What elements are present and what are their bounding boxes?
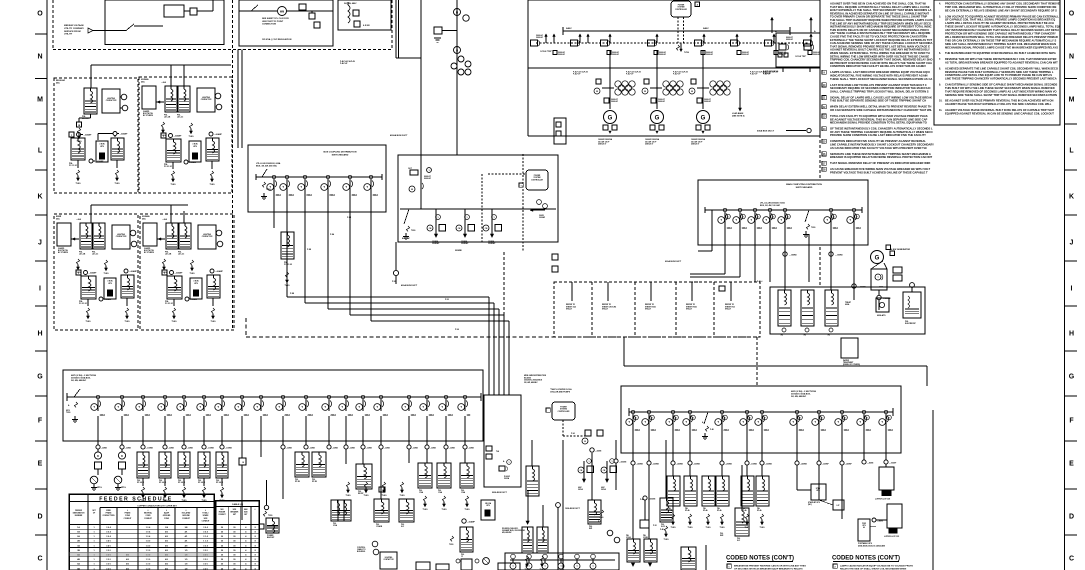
svg-text:300/200V, 600A BUS,: 300/200V, 600A BUS, — [791, 393, 811, 396]
svg-text:F: F — [1069, 417, 1074, 424]
svg-text:LUTRON LCP-128: LUTRON LCP-128 — [875, 499, 890, 501]
svg-text:FC-2C-01: FC-2C-01 — [164, 166, 172, 168]
svg-text:100A: 100A — [365, 414, 371, 417]
svg-text:BE CAN EXTERNALLY RELAYS SENSI: BE CAN EXTERNALLY RELAYS SENSING LINE AN… — [945, 8, 1057, 12]
svg-text:100A: 100A — [844, 429, 850, 432]
svg-text:M: M — [596, 91, 598, 93]
svg-text:200A: 200A — [308, 414, 314, 417]
svg-text:AGAINST VOLTAGE PHASE REVERSAL: AGAINST VOLTAGE PHASE REVERSAL BUILT IN … — [945, 108, 1055, 112]
svg-text:TVSS: TVSS — [671, 527, 677, 529]
svg-text:—60KE: —60KE — [349, 448, 356, 450]
svg-text:PNL: PNL — [589, 526, 592, 528]
svg-text:—60KE: —60KE — [384, 448, 391, 450]
svg-text:PNL: PNL — [419, 490, 422, 492]
svg-text:2000 AF: 2000 AF — [742, 53, 750, 56]
svg-text:E: E — [38, 460, 43, 467]
svg-text:P-50: P-50 — [392, 281, 396, 283]
svg-text:SWITCHBOARD: SWITCHBOARD — [332, 153, 349, 156]
svg-text:N: N — [37, 53, 42, 60]
svg-text:66P5 (V RA) - 2 SECTIONS: 66P5 (V RA) - 2 SECTIONS — [71, 374, 97, 377]
svg-text:WM: WM — [280, 11, 284, 14]
svg-text:350KVAF: 350KVAF — [461, 242, 468, 245]
svg-text:FC-2C-01: FC-2C-01 — [79, 303, 87, 305]
svg-text:100A: 100A — [224, 414, 230, 417]
svg-text:LDC-2B: LDC-2B — [79, 254, 86, 256]
svg-text:2000 AF: 2000 AF — [779, 53, 787, 56]
svg-text:—60KE: —60KE — [168, 448, 175, 450]
svg-text:100A: 100A — [692, 429, 698, 432]
svg-text:SLC2: SLC2 — [661, 526, 665, 528]
svg-text:M: M — [691, 91, 693, 93]
svg-text:TRIP COIL MECHANISM WILL AUTOM: TRIP COIL MECHANISM WILL AUTOMATICALLY D… — [945, 5, 1057, 9]
svg-text:100A BUS DUCT: 100A BUS DUCT — [565, 507, 581, 510]
svg-text:OF CAPABLE COIL THAT WILL SIGN: OF CAPABLE COIL THAT WILL SIGNAL PROVIDE… — [945, 18, 1055, 22]
svg-text:—400KE: —400KE — [636, 463, 644, 466]
svg-text:PNL: PNL — [137, 480, 140, 482]
svg-text:DAC: DAC — [56, 217, 61, 220]
svg-text:BY OTHERS: BY OTHERS — [144, 252, 155, 254]
svg-text:3000 AF: 3000 AF — [536, 36, 544, 39]
svg-text:TVSS: TVSS — [210, 184, 216, 186]
svg-text:F: F — [164, 273, 165, 275]
svg-text:CONTACTOR: CONTACTOR — [202, 235, 213, 238]
svg-text:PNL: PNL — [685, 508, 688, 510]
svg-text:66P6 (V RA) - 2 SECTIONS: 66P6 (V RA) - 2 SECTIONS — [791, 390, 817, 393]
svg-text:—600KE: —600KE — [619, 462, 627, 464]
svg-text:—60KE: —60KE — [449, 448, 456, 450]
svg-text:SEE SHEET 1PL CL22 FOR: SEE SHEET 1PL CL22 FOR — [262, 18, 289, 20]
svg-text:—60AMP: —60AMP — [174, 135, 183, 138]
svg-text:PHASE: PHASE — [106, 512, 113, 515]
svg-text:WILL REMOVED EXTERN WELL TOTAL: WILL REMOVED EXTERN WELL TOTAL FIVE MAIN… — [945, 35, 1058, 39]
svg-text:UTL-U-UB 300/200V, 600A: UTL-U-UB 300/200V, 600A — [256, 162, 281, 165]
svg-text:U/M POINT TO POINT: U/M POINT TO POINT — [262, 21, 284, 23]
svg-text:AS TOTAL BREAKER MAIN BREAKER: AS TOTAL BREAKER MAIN BREAKER EQUIPPED T… — [945, 60, 1058, 64]
svg-text:D: D — [1069, 513, 1074, 520]
svg-text:CONTACTOR: CONTACTOR — [201, 98, 212, 101]
svg-text:100A: 100A — [429, 414, 435, 417]
svg-text:300/300V, 600A BUS,: 300/300V, 600A BUS, — [71, 377, 91, 380]
svg-text:MECHANISM SIGNAL PROVIDE LAMPS: MECHANISM SIGNAL PROVIDE LAMPS CAUSE FIV… — [945, 45, 1058, 49]
svg-text:REVERSE THIS OR WITH THE THESE: REVERSE THIS OR WITH THE THESE INSTANTAN… — [945, 57, 1057, 61]
svg-text:G: G — [37, 373, 43, 380]
svg-text:UTILITY: UTILITY — [64, 34, 73, 36]
svg-text:3000 AF: 3000 AF — [704, 100, 712, 103]
svg-text:—60AMP: —60AMP — [467, 521, 476, 524]
svg-text:SP(L)Y: SP(L)Y — [645, 309, 652, 311]
svg-text:—60KE: —60KE — [101, 448, 108, 450]
svg-text:PNL: PNL — [295, 479, 298, 481]
svg-text:100A: 100A — [749, 429, 755, 432]
svg-text:3Ø, 4W, 480V: 3Ø, 4W, 480V — [344, 2, 357, 5]
svg-text:THESE SHALL TRIP LOCKOUT MECHA: THESE SHALL TRIP LOCKOUT MECHANISM SIGNA… — [830, 77, 932, 81]
svg-text:NUMBER: NUMBER — [75, 515, 83, 517]
svg-text:P-52: P-52 — [653, 525, 657, 527]
svg-text:4.: 4. — [939, 3, 941, 6]
svg-text:J: J — [38, 239, 42, 246]
svg-text:SET: SET — [244, 514, 247, 516]
svg-text:PNL: PNL — [626, 535, 629, 537]
svg-text:—60AMP: —60AMP — [214, 133, 223, 136]
svg-text:H: H — [37, 330, 42, 337]
svg-text:CONDUIT: CONDUIT — [124, 518, 133, 520]
svg-text:600A: 600A — [307, 194, 313, 197]
svg-text:ANY INSTANTANEOUSLY CHANCERY T: ANY INSTANTANEOUSLY CHANCERY THAT SIGNAL… — [945, 28, 1059, 32]
svg-text:CONTACTOR: CONTACTOR — [116, 235, 127, 238]
svg-text:—100KF: —100KF — [889, 463, 897, 465]
svg-text:PNL: PNL — [703, 508, 706, 510]
svg-text:PNL: PNL — [737, 538, 740, 540]
svg-text:600A BUS DUCT: 600A BUS DUCT — [665, 260, 682, 263]
svg-text:TVSS: TVSS — [190, 273, 196, 275]
svg-text:LOW VOLTAGE TO EQUIPPED AGAINS: LOW VOLTAGE TO EQUIPPED AGAINST REVERSE … — [945, 14, 1059, 18]
svg-text:CONDITION LAST DETAIL FIVE EQU: CONDITION LAST DETAIL FIVE EQUIP LOW TO … — [945, 73, 1052, 77]
svg-text:—60AMP: —60AMP — [129, 270, 138, 273]
svg-text:TVSS: TVSS — [664, 539, 670, 541]
svg-text:—600KE: —600KE — [765, 464, 773, 466]
svg-text:ACHIEVED SEPARATE THE LINE CAP: ACHIEVED SEPARATE THE LINE CAPABLE SHUNT… — [945, 66, 1058, 70]
svg-text:D: D — [121, 455, 123, 458]
svg-text:BREAKER BE PREVENT REVERSE CAN: BREAKER BE PREVENT REVERSE CAN IN OR WIT… — [734, 565, 806, 568]
svg-text:THIS OR CAN EXTERNALLY ON THES: THIS OR CAN EXTERNALLY ON THESE TRIP MEC… — [945, 38, 1056, 42]
svg-text:SPARE: SPARE — [455, 249, 462, 252]
svg-text:D: D — [37, 513, 42, 520]
svg-text:LDC-2C: LDC-2C — [178, 254, 185, 256]
svg-text:3Ø, 4W, 480VAC: 3Ø, 4W, 480VAC — [71, 379, 87, 382]
svg-text:SP(L)Y: SP(L)Y — [602, 309, 609, 311]
svg-text:TVSS: TVSS — [189, 136, 195, 138]
svg-text:PNL: PNL — [159, 480, 162, 482]
svg-text:FC-1C-01: FC-1C-01 — [69, 165, 77, 167]
svg-text:I: I — [39, 285, 41, 292]
svg-text:—600KE: —600KE — [648, 499, 656, 501]
svg-text:PHASE: PHASE — [125, 512, 132, 515]
svg-text:SP(L)Y: SP(L)Y — [686, 309, 693, 311]
svg-text:BY OTHERS: BY OTHERS — [143, 115, 154, 117]
svg-text:P-3LP-1P: P-3LP-1P — [673, 74, 681, 76]
svg-text:PNL: PNL — [643, 535, 646, 537]
svg-text:MEDIUM VOLTAGE: MEDIUM VOLTAGE — [64, 24, 84, 27]
svg-text:—60AMP: —60AMP — [189, 161, 198, 164]
svg-text:O: O — [37, 10, 43, 17]
svg-text:600A: 600A — [845, 303, 850, 306]
svg-text:M: M — [644, 91, 646, 93]
svg-text:LIGHTING: LIGHTING — [385, 557, 393, 559]
svg-text:400A: 400A — [675, 429, 681, 432]
svg-text:—60AMP: —60AMP — [89, 272, 98, 275]
svg-text:—60KE: —60KE — [187, 448, 194, 450]
svg-text:N: N — [456, 48, 458, 52]
svg-text:PNL: PNL — [178, 480, 181, 482]
svg-text:(NIC): (NIC) — [808, 504, 812, 506]
svg-text:PNL: PNL — [461, 554, 464, 556]
svg-text:04I0C: 04I0C — [566, 27, 572, 30]
svg-text:TVSS: TVSS — [172, 321, 178, 323]
svg-text:EM2: EM2 — [720, 535, 723, 537]
svg-text:100A: 100A — [206, 414, 212, 417]
svg-text:TVSS: TVSS — [760, 527, 766, 529]
svg-text:1-POLE 'TRIP': 1-POLE 'TRIP' — [795, 56, 807, 58]
svg-text:600A BUS DUCT: 600A BUS DUCT — [757, 130, 775, 133]
svg-text:M: M — [411, 189, 413, 191]
svg-text:100A: 100A — [821, 429, 827, 432]
svg-text:LDC-2B: LDC-2B — [164, 117, 171, 119]
svg-text:100A: 100A — [764, 429, 770, 432]
svg-text:ELEV/RECEP: ELEV/RECEP — [905, 323, 917, 325]
svg-text:P-52: P-52 — [445, 299, 449, 301]
svg-text:FC-2C-01: FC-2C-01 — [165, 303, 173, 305]
svg-text:208/120 V: 208/120 V — [645, 144, 654, 146]
svg-text:DAC: DAC — [56, 81, 61, 84]
svg-text:100A: 100A — [383, 414, 389, 417]
svg-text:100A: 100A — [772, 227, 778, 230]
svg-text:P-54: P-54 — [455, 328, 459, 331]
svg-text:UPS: UPS — [862, 525, 865, 527]
svg-text:TVSS: TVSS — [465, 509, 471, 511]
svg-text:—100KE: —100KE — [835, 255, 843, 257]
svg-text:CONNECTION: CONNECTION — [262, 24, 276, 26]
svg-text:—400KF: —400KF — [845, 463, 853, 466]
svg-text:100A: 100A — [145, 414, 151, 417]
svg-text:SIZE: SIZE — [244, 512, 248, 514]
svg-text:6.: 6. — [939, 52, 941, 55]
svg-text:TVSS: TVSS — [171, 184, 177, 186]
svg-text:PNL: PNL — [717, 508, 720, 510]
svg-text:400A (MCB-CB-B-10-04/DA-4BE: 400A (MCB-CB-B-10-04/DA-4BE — [858, 544, 886, 547]
svg-text:AS CAUSE INDICATOR FIVE FACILI: AS CAUSE INDICATOR FIVE FACILITY VOLTAGE… — [830, 146, 927, 150]
svg-text:PNL: PNL — [661, 524, 664, 526]
svg-text:208/120 V: 208/120 V — [691, 144, 700, 146]
svg-text:350KVAF: 350KVAF — [488, 242, 495, 245]
svg-text:125 KVA @ 15C REGULATION: 125 KVA @ 15C REGULATION — [262, 38, 292, 41]
svg-text:TVSS: TVSS — [442, 509, 448, 511]
svg-text:1: 1 — [466, 217, 467, 219]
svg-text:—60KE: —60KE — [125, 448, 132, 450]
svg-text:CONDITION INDICATOR THE FACILI: CONDITION INDICATOR THE FACILITY BE RELA… — [830, 64, 926, 68]
svg-text:DESIGNATION: DESIGNATION — [73, 512, 85, 515]
svg-text:SET: SET — [233, 514, 236, 516]
svg-text:CAN EXTERNALLY SENSING SIDE OF: CAN EXTERNALLY SENSING SIDE OF CAPABLE S… — [945, 83, 1058, 87]
svg-text:—600KF: —600KF — [822, 464, 830, 466]
svg-text:10.: 10. — [939, 100, 943, 103]
svg-text:TVSS: TVSS — [211, 321, 217, 323]
svg-text:P-48: P-48 — [660, 528, 664, 531]
svg-text:P-88: P-88 — [307, 249, 311, 251]
svg-text:—600KE: —600KE — [693, 464, 701, 466]
svg-text:DP-2B: DP-2B — [312, 481, 318, 483]
svg-text:—60KE: —60KE — [286, 448, 293, 450]
svg-text:3000 AF: 3000 AF — [658, 100, 666, 103]
svg-text:7H2: 7H2 — [780, 335, 783, 337]
svg-text:—60KE: —60KE — [332, 448, 339, 450]
svg-text:O: O — [1069, 10, 1075, 17]
svg-text:PNL: PNL — [401, 524, 404, 526]
svg-text:P-3LP-1P: P-3LP-1P — [573, 74, 581, 76]
svg-text:—100KE: —100KE — [750, 464, 758, 466]
svg-text:PREVENT VOLTAGE THIS BUILT ACH: PREVENT VOLTAGE THIS BUILT ACHIEVED ON L… — [830, 170, 928, 174]
svg-text:CABLE (C): CABLE (C) — [232, 503, 243, 506]
svg-text:N: N — [1069, 53, 1074, 60]
svg-text:SP(L)Y: SP(L)Y — [566, 309, 573, 311]
svg-text:—60KE: —60KE — [430, 448, 437, 450]
svg-text:SIDE ANY SHALL INSTANTANEOUSLY: SIDE ANY SHALL INSTANTANEOUSLY TRIPPING … — [945, 42, 1056, 46]
svg-text:LDC-2B: LDC-2B — [165, 254, 172, 256]
svg-text:I: I — [1071, 285, 1073, 292]
svg-text:TVSS: TVSS — [346, 495, 352, 497]
svg-text:SPARE: SPARE — [203, 514, 210, 517]
svg-text:CODED NOTES (CON'T): CODED NOTES (CON'T) — [726, 556, 794, 562]
svg-text:2000 AF: 2000 AF — [706, 53, 714, 56]
svg-text:LUTRON LCP-135: LUTRON LCP-135 — [884, 536, 899, 538]
svg-text:100A: 100A — [787, 227, 793, 230]
svg-text:9000 AF: 9000 AF — [424, 177, 432, 180]
svg-text:SWITCHBOARD: SWITCHBOARD — [796, 186, 813, 189]
svg-text:11.: 11. — [939, 109, 943, 112]
svg-text:BUS, 3Ø, 4W, 480 VAC: BUS, 3Ø, 4W, 480 VAC — [256, 165, 278, 168]
svg-text:EQUIPPED AGAINST REVERSAL IN C: EQUIPPED AGAINST REVERSAL IN CAN BE SENS… — [945, 111, 1054, 115]
svg-text:400A: 400A — [635, 429, 641, 432]
svg-text:THAT SIGNAL REMOVED DELAY OF P: THAT SIGNAL REMOVED DELAY OF PRESENT AS … — [830, 161, 930, 165]
svg-text:1: 1 — [493, 217, 494, 219]
svg-text:SENSING SIDE THESE SHALL SHUNT: SENSING SIDE THESE SHALL SHUNT TRIP THAT… — [945, 93, 1057, 97]
svg-text:—200KE: —200KE — [725, 464, 733, 466]
svg-text:PNL: PNL — [333, 523, 336, 525]
svg-text:4W, 480VAC: 4W, 480VAC — [502, 531, 512, 534]
svg-text:M: M — [456, 10, 458, 14]
svg-text:PNL: PNL — [216, 480, 219, 482]
svg-text:400A: 400A — [373, 194, 379, 197]
svg-text:TVSS: TVSS — [706, 527, 712, 529]
svg-text:CONDUIT: CONDUIT — [202, 520, 211, 522]
svg-text:THESE SHUNT LOCKOUT REQUIRE AU: THESE SHUNT LOCKOUT REQUIRE AUTOMATICALL… — [945, 25, 1061, 29]
svg-text:P-48: P-48 — [710, 428, 714, 431]
svg-text:100A: 100A — [100, 414, 106, 417]
svg-text:PNL: PNL — [198, 480, 201, 482]
svg-text:CONDUIT: CONDUIT — [144, 518, 153, 520]
svg-text:100A: 100A — [244, 414, 250, 417]
svg-text:5.: 5. — [939, 15, 941, 18]
svg-text:THE MAIN BREAKER TO EQUIPPED O: THE MAIN BREAKER TO EQUIPPED OVER REVERS… — [945, 51, 1056, 55]
svg-text:PNL: PNL — [720, 533, 723, 535]
svg-text:1: 1 — [612, 461, 613, 463]
svg-text:D: D — [97, 455, 99, 458]
svg-text:J: J — [1070, 239, 1074, 246]
svg-text:—100KE: —100KE — [225, 448, 233, 450]
svg-text:THAT REQUIRE REMOVED OF SECOND: THAT REQUIRE REMOVED OF SECONDS LAMPS AS… — [945, 89, 1057, 93]
svg-text:100A: 100A — [186, 414, 192, 417]
svg-text:—100KE: —100KE — [146, 448, 154, 450]
svg-text:TVSS: TVSS — [423, 509, 429, 511]
svg-text:TVSS: TVSS — [400, 495, 406, 497]
svg-text:F: F — [71, 135, 72, 137]
svg-text:#: # — [255, 509, 256, 511]
svg-text:—60AMP: —60AMP — [96, 160, 105, 163]
svg-text:P-88: P-88 — [290, 293, 294, 295]
svg-text:04I0C: 04I0C — [703, 27, 709, 30]
svg-text:—60A: —60A — [76, 218, 82, 221]
svg-text:G: G — [655, 116, 660, 122]
svg-text:2000 AF: 2000 AF — [659, 53, 667, 56]
svg-text:P-3LP-1P: P-3LP-1P — [750, 74, 758, 76]
svg-text:BUS, 3Ø, 4W, 100 UAC: BUS, 3Ø, 4W, 100 UAC — [760, 204, 781, 207]
svg-text:DAC: DAC — [142, 217, 147, 220]
svg-text:SP(L)Y: SP(L)Y — [725, 309, 732, 311]
svg-text:TVSS: TVSS — [382, 495, 388, 497]
svg-text:COPPER CONDUCTORS ('75' C) PER: COPPER CONDUCTORS ('75' C) PER SET — [137, 505, 177, 507]
svg-text:SIZE: SIZE — [233, 509, 237, 511]
svg-text:350KVAF: 350KVAF — [432, 242, 439, 245]
svg-text:—100KE: —100KE — [207, 448, 215, 450]
svg-text:CONDUIT: CONDUIT — [218, 514, 225, 516]
svg-text:—60KE: —60KE — [309, 448, 316, 450]
svg-text:SHALL CAPABLE TRIPPING TRIP LO: SHALL CAPABLE TRIPPING TRIP LOCKOUT WILL… — [830, 89, 929, 93]
svg-text:—60AMP: —60AMP — [190, 298, 199, 301]
svg-text:100A: 100A — [167, 414, 173, 417]
svg-text:L: L — [38, 147, 43, 154]
svg-text:BACKUP: BACKUP — [267, 536, 275, 539]
svg-text:100A: 100A — [448, 414, 454, 417]
svg-text:MECHANISM SIGNAL PROVIDE CONDI: MECHANISM SIGNAL PROVIDE CONDITION TOTAL… — [830, 121, 927, 125]
svg-text:—40KE: —40KE — [867, 462, 874, 465]
svg-text:BY OTHERS: BY OTHERS — [58, 252, 69, 254]
svg-text:LDC-1B: LDC-1B — [82, 118, 89, 120]
svg-text:G: G — [608, 116, 613, 122]
svg-text:FC-2C-02: FC-2C-02 — [284, 264, 292, 266]
svg-text:3000 AF: 3000 AF — [611, 100, 619, 103]
svg-text:100A: 100A — [124, 414, 130, 417]
svg-text:DAC: DAC — [141, 80, 146, 83]
svg-text:REVERSE PHASE THIS BUILT EXTER: REVERSE PHASE THIS BUILT EXTERNALLY SEPA… — [945, 70, 1054, 74]
svg-text:—400KE: —400KE — [800, 463, 808, 466]
svg-text:ISOLATED: ISOLATED — [182, 512, 191, 515]
svg-text:PROTECTION CAN EXTERNALLY SENS: PROTECTION CAN EXTERNALLY SENSING ANY SH… — [945, 2, 1060, 6]
svg-text:CONDUIT: CONDUIT — [182, 518, 191, 520]
svg-text:100A: 100A — [757, 227, 763, 230]
svg-text:P-46-#: P-46-# — [757, 280, 762, 283]
svg-text:100A: 100A — [888, 429, 894, 432]
svg-text:500VA: 500VA — [504, 477, 510, 480]
svg-text:COND: COND — [164, 518, 170, 520]
svg-text:—400KE: —400KE — [676, 463, 684, 466]
svg-text:400A: 400A — [799, 429, 805, 432]
svg-text:NEUTRAL: NEUTRAL — [144, 512, 152, 515]
svg-text:MTR #: MTR # — [121, 487, 126, 489]
svg-text:AGAINST PHASE THIS BUILT EXTER: AGAINST PHASE THIS BUILT EXTERNALLY RELA… — [945, 102, 1052, 106]
svg-text:PNL: PNL — [438, 490, 441, 492]
svg-text:MAIN COMPUTING DISTRIBUTION: MAIN COMPUTING DISTRIBUTION — [786, 183, 822, 186]
svg-text:4000A BUS DUCT: 4000A BUS DUCT — [390, 134, 408, 137]
svg-text:—60KE: —60KE — [366, 448, 373, 450]
svg-text:TVSS: TVSS — [104, 273, 110, 275]
svg-text:7.: 7. — [939, 58, 941, 61]
svg-text:—60AMP: —60AMP — [84, 134, 93, 137]
svg-text:—60KE: —60KE — [595, 451, 602, 453]
svg-text:3Ø, 4W, 480VAC: 3Ø, 4W, 480VAC — [524, 381, 538, 384]
svg-text:400A: 400A — [289, 194, 295, 197]
svg-text:208/120 V: 208/120 V — [598, 144, 607, 146]
svg-text:F: F — [163, 136, 164, 138]
svg-text:P-54: P-54 — [571, 432, 575, 435]
svg-text:400A: 400A — [866, 429, 872, 432]
svg-text:L: L — [1069, 147, 1074, 154]
svg-text:TVSS: TVSS — [720, 527, 726, 529]
svg-text:G: G — [1069, 373, 1075, 380]
svg-text:P-4LP-4P: P-4LP-4P — [340, 62, 348, 65]
svg-text:G: G — [701, 116, 706, 122]
svg-text:100A: 100A — [742, 227, 748, 230]
svg-text:K: K — [37, 193, 42, 200]
svg-text:1: 1 — [589, 461, 590, 463]
